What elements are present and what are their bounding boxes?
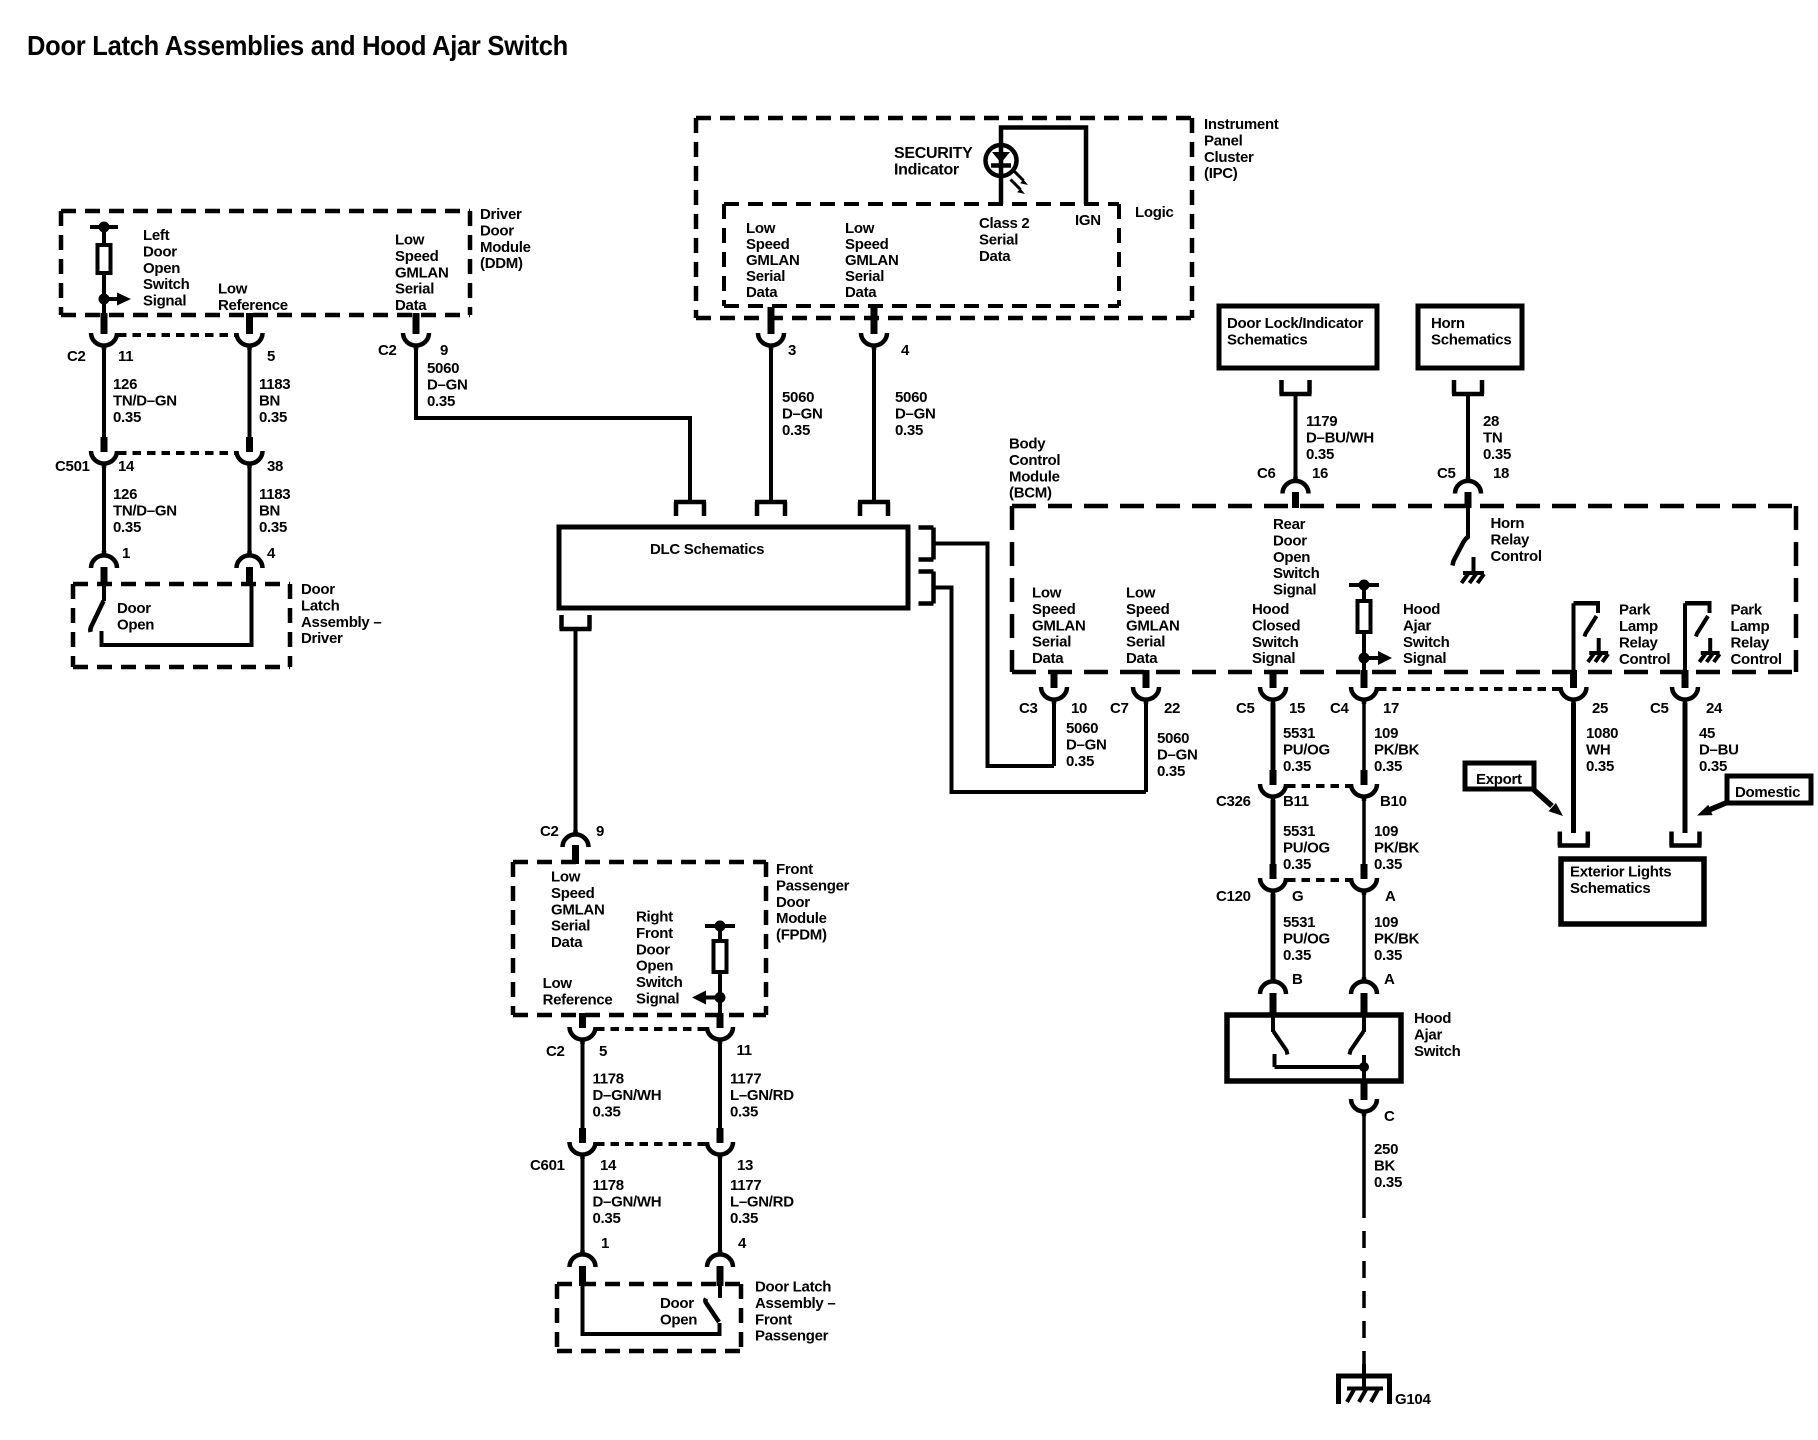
svg-text:Horn: Horn <box>1431 315 1465 332</box>
svg-text:Low: Low <box>746 220 776 237</box>
module box: Horn Schematics <box>1418 306 1522 368</box>
svg-text:Serial: Serial <box>551 918 590 935</box>
svg-text:1: 1 <box>601 1235 609 1252</box>
label: 1183 BN 0.35 (upper) <box>259 376 290 426</box>
LED light arrows <box>1011 171 1029 195</box>
label: Horn Schematics <box>1431 315 1511 348</box>
svg-text:5060: 5060 <box>427 360 459 377</box>
label: Door Latch Assembly - Front Passenger <box>755 1279 835 1345</box>
label: 109 PK/BK 0.35 (row3) <box>1374 914 1420 964</box>
pin stub: hood ajar pin B <box>1270 993 1277 1016</box>
svg-text:(BCM): (BCM) <box>1009 485 1052 502</box>
svg-text:0.35: 0.35 <box>427 393 455 410</box>
switch: driver door open switch <box>90 584 104 632</box>
svg-text:Closed: Closed <box>1252 617 1300 634</box>
wire 5060 D-GN pin4 to DLC <box>872 349 876 500</box>
label: C6 / 16 <box>1257 465 1328 482</box>
connector C326 B10 (cup) <box>1351 784 1377 801</box>
label: Door Lock/Indicator Schematics <box>1227 315 1363 348</box>
label: 5060 D-GN 0.35 (pin3) <box>782 389 822 439</box>
svg-text:Serial: Serial <box>746 268 785 285</box>
connector pin A (dome) <box>1351 977 1377 994</box>
connector pin B (dome) <box>1260 977 1286 994</box>
pin stub: C326 B10 <box>1361 770 1368 785</box>
callout box: Export <box>1465 763 1534 789</box>
label: 45 D-BU 0.35 <box>1699 725 1739 775</box>
pin stub: FP latch pin 1 <box>579 1266 586 1286</box>
svg-text:Front: Front <box>636 925 673 942</box>
svg-text:9: 9 <box>596 823 604 840</box>
svg-text:Front: Front <box>755 1311 792 1328</box>
bracket: DLC bottom exit <box>560 615 592 629</box>
svg-text:Indicator: Indicator <box>894 161 959 178</box>
svg-text:Hood: Hood <box>1414 1010 1451 1027</box>
LED: SECURITY indicator lamp <box>986 145 1017 176</box>
svg-text:Low: Low <box>395 232 425 249</box>
svg-text:TN/D–GN: TN/D–GN <box>113 392 177 409</box>
svg-text:Low: Low <box>845 220 875 237</box>
svg-text:0.35: 0.35 <box>1374 947 1402 964</box>
svg-text:Module: Module <box>776 910 827 927</box>
connector C2 pin 9 FPDM (dome) <box>563 830 589 847</box>
module box: Front Passenger Door Module (FPDM) <box>513 862 766 1015</box>
svg-text:Low: Low <box>543 975 573 992</box>
svg-text:GMLAN: GMLAN <box>1126 617 1180 634</box>
pin stub: latch pin 4 <box>246 567 253 586</box>
svg-text:1183: 1183 <box>259 376 290 393</box>
label: 5060 D-GN 0.35 (pin4) <box>895 389 935 439</box>
wire 5531 PU/OG (row3) <box>1271 894 1276 982</box>
switch: horn relay contact <box>1453 508 1470 566</box>
label: 250 BK 0.35 <box>1374 1141 1402 1191</box>
pin stub: BCM C3 pin 10 <box>1051 670 1058 688</box>
svg-text:Control: Control <box>1009 452 1060 469</box>
svg-text:Serial: Serial <box>845 268 884 285</box>
svg-text:Low: Low <box>551 869 581 886</box>
svg-text:PU/OG: PU/OG <box>1283 741 1330 758</box>
svg-text:1178: 1178 <box>593 1071 624 1088</box>
svg-text:14: 14 <box>600 1157 617 1174</box>
svg-text:24: 24 <box>1706 700 1723 717</box>
svg-text:14: 14 <box>118 458 135 475</box>
module box: Door Latch Assembly - Driver <box>73 584 290 667</box>
svg-text:C7: C7 <box>1110 700 1129 717</box>
svg-text:Open: Open <box>660 1311 697 1328</box>
label: Low Reference (FPDM) <box>543 975 613 1008</box>
svg-text:28: 28 <box>1483 413 1499 430</box>
svg-text:Passenger: Passenger <box>776 877 850 894</box>
svg-text:(FPDM): (FPDM) <box>776 927 827 944</box>
connector line C326 (dotted) <box>1287 784 1351 788</box>
svg-text:5060: 5060 <box>782 389 814 406</box>
wire: FP latch switch loop <box>583 1284 720 1334</box>
label: 1080 WH 0.35 <box>1586 725 1618 775</box>
wire 1177 L-GN/RD (upper) <box>718 1043 722 1128</box>
pin stub: DDM pin 9 <box>413 313 420 334</box>
connector C2 pin 9 (cup) <box>403 333 429 350</box>
label: 1178 D-GN/WH 0.35 (upper) <box>593 1071 662 1121</box>
svg-text:GMLAN: GMLAN <box>1032 617 1086 634</box>
svg-text:5: 5 <box>267 348 275 365</box>
label: 126 TN/D-GN 0.35 (upper) <box>113 376 177 426</box>
svg-text:Door Lock/Indicator: Door Lock/Indicator <box>1227 315 1363 332</box>
svg-text:4: 4 <box>738 1235 747 1252</box>
wire 1179 D-BU/WH <box>1294 394 1298 482</box>
svg-text:SECURITY: SECURITY <box>894 145 973 162</box>
svg-text:Hood: Hood <box>1252 601 1289 618</box>
svg-text:0.35: 0.35 <box>1586 758 1614 775</box>
bracket: IPC pin4 entry <box>858 502 890 516</box>
connector line C4-to-25 (dotted) <box>1378 687 1560 691</box>
switch: hood ajar left contact <box>1273 1015 1288 1055</box>
connector C5 pin 15 (cup) <box>1260 687 1286 704</box>
svg-text:Door: Door <box>480 222 514 239</box>
junction + arrow: right front door open switch signal <box>692 991 726 1005</box>
svg-text:Domestic: Domestic <box>1735 784 1800 801</box>
label: Low Reference (DDM) <box>218 281 288 314</box>
ground G104 <box>1336 1376 1392 1404</box>
svg-text:Door: Door <box>776 894 810 911</box>
svg-text:Speed: Speed <box>845 236 889 253</box>
wire: DLC to BCM C3/10 <box>935 544 1054 767</box>
svg-text:Switch: Switch <box>636 974 683 991</box>
wire 250 BK <box>1362 1115 1366 1201</box>
pin stub: DDM pin 5 <box>246 313 253 334</box>
svg-text:PU/OG: PU/OG <box>1283 839 1330 856</box>
svg-text:5060: 5060 <box>1157 730 1189 747</box>
pin stub: BCM C5 pin 24 <box>1682 670 1689 688</box>
svg-text:C2: C2 <box>540 823 559 840</box>
wire 109 PK/BK (row2) <box>1362 800 1366 866</box>
svg-text:Left: Left <box>143 227 170 244</box>
svg-text:0.35: 0.35 <box>593 1103 621 1120</box>
label: 109 PK/BK 0.35 (row2) <box>1374 823 1420 873</box>
wire 5531 PU/OG (row2) <box>1271 800 1276 866</box>
svg-text:0.35: 0.35 <box>593 1210 621 1227</box>
svg-text:TN/D–GN: TN/D–GN <box>113 502 177 519</box>
svg-text:Data: Data <box>979 248 1011 265</box>
label: Hood Ajar Switch <box>1414 1010 1461 1060</box>
wire 1178 D-GN/WH (upper) <box>581 1043 585 1128</box>
wire 109 PK/BK (row3) <box>1362 894 1366 982</box>
wire: LED anode to IGN feed <box>1001 128 1086 205</box>
svg-text:11: 11 <box>118 348 133 365</box>
svg-text:Schematics: Schematics <box>1570 880 1650 897</box>
svg-text:5531: 5531 <box>1283 823 1315 840</box>
bracket: DDM wire entry <box>674 502 706 516</box>
svg-text:109: 109 <box>1374 823 1398 840</box>
switch: FP door open switch <box>705 1284 720 1322</box>
wire: resistor to junction (FPDM) <box>718 972 722 998</box>
svg-text:C: C <box>1384 1108 1395 1125</box>
svg-text:0.35: 0.35 <box>113 409 141 426</box>
svg-text:Open: Open <box>117 616 154 633</box>
arrow: Domestic to wire 45 <box>1697 803 1727 816</box>
connector C601 pin 13 (cup) <box>707 1142 733 1159</box>
module box: Door Latch Assembly - Front Passenger <box>557 1284 741 1351</box>
svg-text:5531: 5531 <box>1283 725 1315 742</box>
svg-text:Reference: Reference <box>543 991 613 1008</box>
pin stub: FPDM pin 5 <box>579 1013 586 1028</box>
svg-text:GMLAN: GMLAN <box>395 264 449 281</box>
svg-text:109: 109 <box>1374 725 1398 742</box>
page link brackets on DLC top <box>0 0 1 1</box>
svg-text:0.35: 0.35 <box>259 409 287 426</box>
arrow: Export to wire 1080 <box>1533 789 1563 816</box>
pin stub: BCM C5 pin 15 <box>1270 670 1277 688</box>
label: Door Open (driver latch) <box>117 600 154 633</box>
svg-text:C501: C501 <box>55 458 90 475</box>
svg-text:Park: Park <box>1619 602 1651 619</box>
svg-text:IGN: IGN <box>1075 212 1101 229</box>
wire 5060 D-GN from DDM to DLC <box>416 349 690 500</box>
svg-text:Rear: Rear <box>1273 516 1306 533</box>
label: Rear Door Open Switch Signal <box>1273 516 1320 599</box>
label: pins 1 / 4 (driver latch) <box>122 545 276 562</box>
svg-text:C2: C2 <box>67 348 86 365</box>
node: internal supply bar (DDM) <box>90 222 118 233</box>
svg-text:WH: WH <box>1586 741 1610 758</box>
wire: DLC to FPDM C2/9 <box>574 631 578 836</box>
relay: park lamp relay 1 <box>1574 603 1601 652</box>
svg-text:Switch: Switch <box>1252 634 1299 651</box>
resistor: FPDM right front door pull-up <box>714 926 727 972</box>
junction + arrow: hood ajar switch signal sense <box>1359 651 1393 665</box>
pin stub: hood ajar pin A <box>1361 993 1368 1016</box>
pin stub: IPC pin 4 <box>871 307 878 334</box>
svg-text:0.35: 0.35 <box>1483 446 1511 463</box>
label: pins B / A (hood ajar switch) <box>1292 971 1395 988</box>
label: 1178 D-GN/WH 0.35 (lower) <box>593 1177 662 1227</box>
connector C5 pin 18 (dome) <box>1455 477 1481 494</box>
label: C2 / 5 / 11 (FPDM) <box>546 1042 752 1060</box>
wire 1178 D-GN/WH (lower) <box>581 1158 585 1254</box>
resistor: hood ajar pull-up <box>1358 585 1371 632</box>
wire: driver latch switch to pin 4 <box>102 584 252 645</box>
label: 5060 D-GN 0.35 (C3) <box>1066 720 1106 770</box>
svg-text:D–GN: D–GN <box>782 405 822 422</box>
label: Low Speed GMLAN Serial Data (BCM C3) <box>1032 585 1086 668</box>
svg-text:1177: 1177 <box>730 1177 761 1194</box>
label: Class 2 Serial Data <box>979 215 1029 265</box>
svg-text:Ajar: Ajar <box>1403 617 1431 634</box>
svg-text:D–GN: D–GN <box>1066 736 1106 753</box>
wire 5060 D-GN pin3 to DLC <box>769 349 773 500</box>
connector C601 pin 14 (cup) <box>570 1142 596 1159</box>
svg-text:Control: Control <box>1731 651 1782 668</box>
svg-text:15: 15 <box>1289 700 1305 717</box>
wire: hood ajar common <box>1275 1054 1370 1072</box>
connector C6 pin 16 (dome) <box>1283 477 1309 494</box>
label: C501 / 14 / 38 <box>55 458 283 475</box>
wire: into G104 <box>1362 1364 1366 1389</box>
svg-text:Assembly –: Assembly – <box>755 1295 835 1312</box>
svg-text:16: 16 <box>1312 465 1328 482</box>
label: Driver Door Module (DDM) <box>480 206 531 272</box>
svg-text:Passenger: Passenger <box>755 1328 829 1345</box>
svg-text:5: 5 <box>599 1043 607 1060</box>
svg-text:B10: B10 <box>1380 793 1407 810</box>
label: Door Latch Assembly - Driver <box>301 581 381 647</box>
svg-text:Low: Low <box>218 281 248 298</box>
svg-text:0.35: 0.35 <box>1699 758 1727 775</box>
connector C120 A (cup) <box>1351 878 1377 895</box>
pin stub: BCM C4 pin 17 <box>1361 670 1368 688</box>
svg-text:0.35: 0.35 <box>1283 947 1311 964</box>
svg-text:Door: Door <box>636 941 670 958</box>
wire: junction to BCM edge (hood ajar) <box>1362 658 1366 672</box>
svg-text:Assembly –: Assembly – <box>301 614 381 631</box>
connector pin 3 (cup) <box>758 333 784 350</box>
label: C326 / B11 / B10 <box>1216 793 1407 810</box>
svg-text:5060: 5060 <box>1066 720 1098 737</box>
svg-text:Open: Open <box>1273 549 1310 566</box>
connector C5 pin 24 (cup) <box>1672 687 1698 704</box>
svg-text:0.35: 0.35 <box>1283 758 1311 775</box>
connector line C2 FPDM (dotted) <box>596 1027 707 1031</box>
svg-text:B11: B11 <box>1283 793 1309 810</box>
pin stub: C326 B11 <box>1270 770 1277 785</box>
label: Exterior Lights Schematics <box>1570 864 1671 897</box>
svg-text:B: B <box>1292 971 1303 988</box>
pin stub: latch pin 1 <box>101 567 108 586</box>
svg-text:BN: BN <box>259 392 280 409</box>
wire 109 PK/BK (row1) <box>1362 703 1366 772</box>
svg-text:Reference: Reference <box>218 297 288 314</box>
label: 5531 PU/OG 0.35 (row2) <box>1283 823 1330 873</box>
svg-text:Door: Door <box>117 600 151 617</box>
pin stub: C120 A <box>1361 864 1368 879</box>
svg-text:Serial: Serial <box>395 281 434 298</box>
svg-text:3: 3 <box>788 342 796 359</box>
svg-text:Front: Front <box>776 861 813 878</box>
svg-text:Door: Door <box>1273 532 1307 549</box>
bracket: DLC right exit upper <box>919 528 934 560</box>
svg-text:22: 22 <box>1164 700 1180 717</box>
component box: Hood Ajar Switch <box>1227 1015 1401 1081</box>
label: 1179 D-BU/WH 0.35 <box>1306 413 1374 463</box>
pin stub: BCM C6 pin 16 <box>1292 492 1299 508</box>
svg-text:Switch: Switch <box>143 276 190 293</box>
svg-text:PK/BK: PK/BK <box>1374 839 1420 856</box>
svg-text:Lamp: Lamp <box>1731 618 1770 635</box>
module box: DLC Schematics <box>559 527 908 608</box>
svg-text:1178: 1178 <box>593 1177 624 1194</box>
svg-text:DLC Schematics: DLC Schematics <box>650 541 764 558</box>
svg-text:5531: 5531 <box>1283 914 1315 931</box>
svg-text:250: 250 <box>1374 1141 1398 1158</box>
svg-text:C2: C2 <box>546 1043 565 1060</box>
svg-text:Speed: Speed <box>551 885 595 902</box>
module box: Instrument Panel Cluster (IPC) <box>696 118 1192 318</box>
label: Hood Closed Switch Signal <box>1252 601 1300 667</box>
svg-text:D–GN/WH: D–GN/WH <box>593 1087 662 1104</box>
svg-text:Switch: Switch <box>1403 634 1450 651</box>
connector C7 pin 22 (cup) <box>1133 687 1159 704</box>
label: 109 PK/BK 0.35 (row1) <box>1374 725 1420 775</box>
svg-text:Door: Door <box>143 243 177 260</box>
svg-text:126: 126 <box>113 486 137 503</box>
connector line C601 (dotted) <box>596 1142 707 1146</box>
pin stub: FPDM pin 9 <box>572 845 579 864</box>
svg-text:Signal: Signal <box>636 991 679 1008</box>
module box: Driver Door Module (DDM) <box>61 211 470 315</box>
label: Park Lamp Relay Control (1) <box>1619 602 1670 668</box>
svg-text:Switch: Switch <box>1414 1043 1461 1060</box>
ground: park lamp relay 2 <box>1699 653 1719 662</box>
svg-text:D–BU: D–BU <box>1699 741 1739 758</box>
label: Low Speed GMLAN Serial Data (BCM C7) <box>1126 585 1180 668</box>
svg-text:C5: C5 <box>1437 465 1456 482</box>
svg-text:Export: Export <box>1476 771 1522 788</box>
label: Horn Relay Control <box>1491 515 1542 565</box>
pin stub: IPC pin 3 <box>768 307 775 334</box>
label: C2 / 11 / 5 <box>67 348 275 365</box>
svg-text:25: 25 <box>1592 700 1608 717</box>
label: 5060 D-GN 0.35 (C7) <box>1157 730 1197 780</box>
svg-text:C5: C5 <box>1236 700 1255 717</box>
svg-text:C326: C326 <box>1216 793 1251 810</box>
svg-text:Signal: Signal <box>143 293 186 310</box>
svg-text:BK: BK <box>1374 1157 1396 1174</box>
svg-text:A: A <box>1385 888 1396 905</box>
svg-text:Speed: Speed <box>1126 601 1170 618</box>
label: 1183 BN 0.35 (lower) <box>259 486 290 536</box>
svg-text:Class 2: Class 2 <box>979 215 1029 232</box>
wire: C3 pin10 down <box>1052 703 1056 766</box>
svg-text:Serial: Serial <box>1126 634 1165 651</box>
label: Low Speed GMLAN Serial Data (FPDM) <box>551 869 605 952</box>
bracket: DLC right exit lower <box>919 572 934 604</box>
svg-text:Schematics: Schematics <box>1431 331 1511 348</box>
svg-text:C120: C120 <box>1216 888 1251 905</box>
pin stub: FP latch pin 4 <box>717 1266 724 1286</box>
svg-text:Lamp: Lamp <box>1619 618 1658 635</box>
svg-text:1179: 1179 <box>1306 413 1337 430</box>
connector C501 pin 38 (cup) <box>237 451 263 468</box>
label: 5531 PU/OG 0.35 (row3) <box>1283 914 1330 964</box>
svg-text:0.35: 0.35 <box>113 519 141 536</box>
svg-text:0.35: 0.35 <box>782 422 810 439</box>
svg-text:TN: TN <box>1483 429 1502 446</box>
wire 1177 L-GN/RD (lower) <box>718 1158 722 1254</box>
svg-text:Data: Data <box>395 297 427 314</box>
svg-text:Data: Data <box>1032 650 1064 667</box>
label: SECURITY Indicator <box>894 145 973 178</box>
wire: FPDM junction to pin 11 <box>718 998 722 1015</box>
svg-text:38: 38 <box>267 458 283 475</box>
module box: Exterior Lights Schematics <box>1561 859 1704 924</box>
svg-text:0.35: 0.35 <box>259 519 287 536</box>
wire 1183 BN (upper) <box>248 349 252 437</box>
svg-text:Latch: Latch <box>301 597 340 614</box>
wire: park lamp relay 1 to pin 25 <box>1572 603 1576 672</box>
svg-text:0.35: 0.35 <box>730 1103 758 1120</box>
svg-text:GMLAN: GMLAN <box>845 252 899 269</box>
svg-text:A: A <box>1384 971 1395 988</box>
junction + arrow: left door open switch signal sense <box>99 293 132 306</box>
svg-text:PK/BK: PK/BK <box>1374 930 1420 947</box>
pin stub: BCM C5 pin 18 <box>1465 492 1472 508</box>
svg-text:Door: Door <box>301 581 335 598</box>
wire: resistor to junction (hood ajar) <box>1362 632 1366 658</box>
svg-text:10: 10 <box>1071 700 1087 717</box>
svg-text:C3: C3 <box>1019 700 1038 717</box>
pin stub: hood ajar pin C <box>1361 1080 1368 1100</box>
svg-text:Low: Low <box>1032 585 1062 602</box>
label: Instrument Panel Cluster (IPC) <box>1204 116 1279 182</box>
label: C2 / 9 (DDM serial) <box>378 342 448 359</box>
